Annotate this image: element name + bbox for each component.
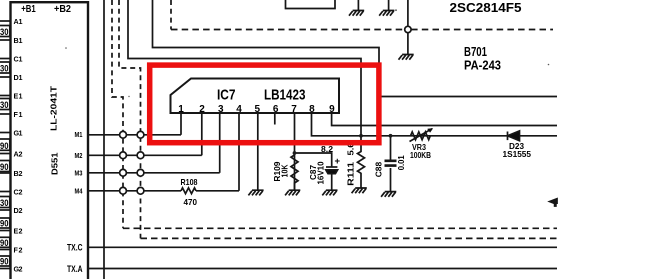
svg-text:E2: E2: [14, 226, 23, 235]
svg-text:M2: M2: [75, 151, 83, 160]
svg-text:10K: 10K: [281, 164, 290, 177]
svg-text:A1: A1: [14, 17, 23, 26]
svg-text:8: 8: [309, 104, 315, 115]
svg-text:LB1423: LB1423: [264, 86, 306, 103]
svg-text:C1: C1: [14, 54, 23, 63]
svg-text:C2: C2: [14, 187, 23, 196]
svg-text:B2: B2: [14, 169, 23, 178]
svg-text:A2: A2: [14, 149, 23, 158]
svg-text:90: 90: [0, 162, 9, 172]
svg-text:30: 30: [0, 27, 9, 37]
svg-text:16V10: 16V10: [317, 161, 326, 185]
svg-text:90: 90: [0, 141, 9, 151]
svg-text:D551: D551: [50, 152, 59, 175]
svg-text:+B2: +B2: [54, 4, 71, 15]
svg-text:TX.C: TX.C: [67, 243, 83, 254]
svg-text:M1: M1: [75, 130, 83, 139]
svg-text:M4: M4: [75, 186, 84, 195]
svg-text:D2: D2: [14, 206, 23, 215]
svg-text:3: 3: [218, 104, 224, 115]
svg-text:30: 30: [0, 64, 9, 74]
svg-text:90: 90: [0, 238, 9, 248]
svg-text:7: 7: [291, 104, 297, 115]
svg-text:IC7: IC7: [217, 86, 236, 103]
svg-text:PA-243: PA-243: [464, 58, 501, 73]
svg-text:TX.A: TX.A: [67, 264, 83, 275]
svg-text:G2: G2: [14, 264, 23, 273]
svg-text:9: 9: [329, 104, 335, 115]
svg-text:470: 470: [184, 197, 198, 207]
svg-text:B1: B1: [14, 36, 23, 45]
svg-text:G1: G1: [14, 128, 23, 137]
svg-text:30: 30: [0, 198, 9, 208]
svg-text:100KB: 100KB: [410, 151, 431, 160]
svg-text:8.2: 8.2: [321, 145, 334, 154]
svg-text:90: 90: [0, 257, 9, 267]
svg-text:2: 2: [199, 104, 205, 115]
svg-text:6: 6: [273, 104, 279, 115]
svg-text:2SC2814F5: 2SC2814F5: [450, 0, 522, 15]
svg-text:5: 5: [255, 104, 261, 115]
svg-text:90: 90: [0, 219, 9, 229]
svg-text:0.01: 0.01: [397, 155, 406, 171]
svg-text:4: 4: [236, 104, 242, 115]
svg-text:C88: C88: [375, 161, 384, 177]
svg-text:R111: R111: [347, 161, 356, 186]
svg-text:+B1: +B1: [21, 4, 36, 15]
svg-text:M3: M3: [75, 168, 83, 177]
svg-text:LL-2041T: LL-2041T: [48, 85, 58, 131]
svg-text:+: +: [335, 156, 341, 167]
svg-text:1: 1: [178, 104, 184, 115]
svg-text:F1: F1: [14, 110, 23, 119]
svg-text:D1: D1: [14, 73, 23, 82]
svg-text:R108: R108: [181, 177, 198, 187]
svg-text:E1: E1: [14, 91, 23, 100]
svg-text:1S1555: 1S1555: [503, 149, 532, 159]
svg-text:30: 30: [0, 100, 9, 110]
svg-text:F2: F2: [14, 245, 23, 254]
